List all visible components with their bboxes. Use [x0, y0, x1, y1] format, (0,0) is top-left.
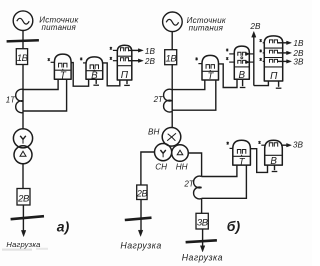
svg-text:2В: 2В [249, 22, 261, 31]
svg-text:1В: 1В [145, 47, 156, 56]
svg-text:3В: 3В [293, 57, 304, 66]
svg-text:Нагрузка: Нагрузка [182, 252, 223, 262]
svg-text:НН: НН [176, 163, 188, 172]
svg-text:питания: питания [189, 24, 224, 33]
svg-text:Нагрузка: Нагрузка [120, 241, 161, 251]
svg-text:а): а) [57, 218, 70, 234]
svg-text:ВН: ВН [148, 128, 159, 137]
svg-text:2Т: 2Т [153, 95, 164, 104]
svg-text:3В: 3В [197, 218, 209, 229]
svg-text:П: П [270, 71, 278, 82]
svg-text:1В: 1В [165, 53, 177, 64]
svg-text:2В: 2В [17, 193, 30, 204]
svg-text:Нагрузка: Нагрузка [6, 240, 40, 249]
svg-text:П: П [121, 70, 129, 81]
svg-text:В: В [91, 71, 98, 82]
svg-text:1Т: 1Т [6, 95, 16, 104]
svg-text:2Т: 2Т [183, 179, 194, 188]
svg-text:1В: 1В [17, 53, 29, 64]
svg-text:1В: 1В [293, 39, 304, 48]
svg-text:3В: 3В [293, 141, 304, 150]
svg-text:2В: 2В [136, 188, 148, 198]
svg-text:б): б) [227, 218, 241, 234]
svg-text:2В: 2В [144, 57, 156, 66]
svg-text:питания: питания [42, 23, 77, 32]
svg-text:Т: Т [60, 70, 67, 81]
svg-text:СН: СН [155, 163, 167, 172]
